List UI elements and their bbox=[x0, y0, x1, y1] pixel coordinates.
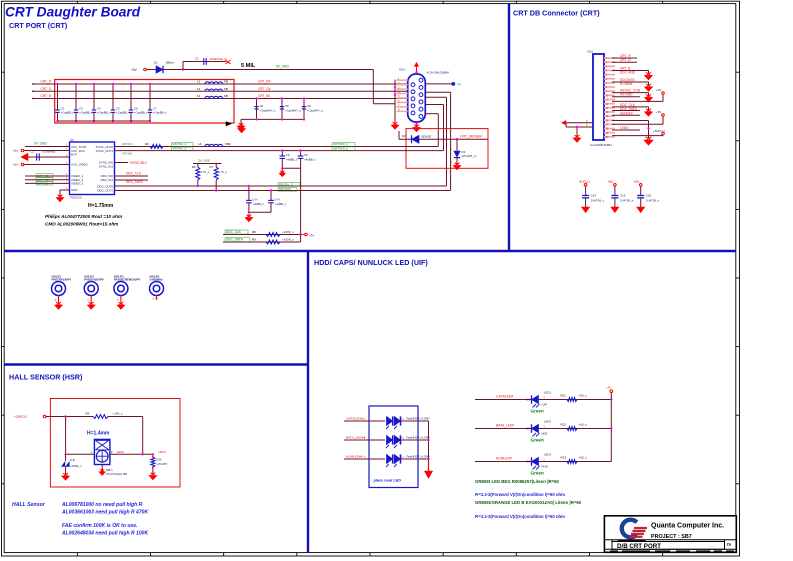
svg-text:HV-GND: HV-GND bbox=[620, 93, 633, 97]
svg-text:+5V: +5V bbox=[309, 234, 314, 238]
svg-text:PLCFT(6Hx) BB: PLCFT(6Hx) BB bbox=[106, 472, 127, 476]
svg-text:Za: Za bbox=[727, 542, 732, 547]
svg-text:+100K_x: +100K_x bbox=[282, 238, 294, 242]
svg-text:C8: C8 bbox=[260, 104, 264, 108]
svg-text:+5V: +5V bbox=[606, 386, 611, 390]
svg-text:C1: C1 bbox=[195, 57, 199, 61]
svg-text:BATA_LED#: BATA_LED# bbox=[496, 424, 514, 428]
svg-text:H=1.75mm: H=1.75mm bbox=[88, 203, 114, 209]
svg-text:LED2: LED2 bbox=[117, 450, 125, 454]
svg-text:TataHDDP_4_RID: TataHDDP_4_RID bbox=[406, 436, 429, 440]
svg-text:+5V: +5V bbox=[607, 180, 614, 184]
svg-text:1: 1 bbox=[153, 297, 155, 301]
svg-text:+4pBB_x: +4pBB_x bbox=[252, 202, 264, 206]
svg-text:4.7K_x: 4.7K_x bbox=[218, 170, 227, 174]
svg-text:+60_x: +60_x bbox=[579, 456, 588, 460]
svg-text:NUMLED#6: NUMLED#6 bbox=[346, 455, 363, 459]
svg-text:Green: Green bbox=[531, 409, 544, 414]
svg-text:2: 2 bbox=[111, 450, 113, 454]
svg-text:+3V: +3V bbox=[13, 149, 20, 153]
svg-text:DDC_DATA: DDC_DATA bbox=[126, 180, 144, 184]
svg-text:GREEN/ORANGE LED B EAG0031ZA0(: GREEN/ORANGE LED B EAG0031ZA0( Liteon )R… bbox=[475, 500, 582, 505]
svg-text:DDC_CLK: DDC_CLK bbox=[226, 230, 242, 234]
svg-text:Philips AL004772000 Rout =10 o: Philips AL004772000 Rout =10 ohm bbox=[45, 214, 122, 219]
svg-text:C9: C9 bbox=[304, 153, 308, 157]
svg-text:R4: R4 bbox=[86, 411, 90, 415]
svg-text:CRT Daughter Board: CRT Daughter Board bbox=[5, 4, 141, 19]
svg-text:CRT_SENSE#: CRT_SENSE# bbox=[460, 135, 482, 139]
svg-text:AxxxDDB.2DBH: AxxxDDB.2DBH bbox=[590, 143, 612, 147]
svg-text:HSYNC: HSYNC bbox=[122, 142, 133, 146]
svg-text:1: 1 bbox=[55, 298, 57, 302]
svg-text:R-GND#: R-GND# bbox=[620, 82, 632, 86]
svg-text:NUM: NUM bbox=[542, 464, 549, 468]
svg-text:1: 1 bbox=[451, 147, 453, 151]
svg-text:FB: FB bbox=[224, 87, 228, 91]
svg-text:+4pBB_x: +4pBB_x bbox=[275, 202, 287, 206]
svg-text:PROJECT : SB7: PROJECT : SB7 bbox=[651, 534, 692, 540]
svg-text:PAD/TH/2X/PV: PAD/TH/2X/PV bbox=[52, 278, 72, 282]
svg-text:VSYNC: VSYNC bbox=[122, 152, 133, 156]
svg-text:2: 2 bbox=[451, 160, 453, 164]
svg-text:LED3: LED3 bbox=[544, 453, 551, 457]
svg-text:R5: R5 bbox=[192, 165, 196, 169]
svg-text:VSYNC_C: VSYNC_C bbox=[173, 147, 188, 151]
svg-text:VCC_VIDEO: VCC_VIDEO bbox=[71, 163, 88, 167]
svg-text:DDC_OUT1: DDC_OUT1 bbox=[97, 188, 113, 192]
svg-text:T4: T4 bbox=[457, 82, 461, 86]
svg-text:CRT5V0_C: CRT5V0_C bbox=[333, 147, 349, 151]
svg-text:D/B CRT PORT: D/B CRT PORT bbox=[617, 543, 661, 550]
svg-text:CN1: CN1 bbox=[399, 68, 405, 72]
svg-text:U2: U2 bbox=[70, 138, 74, 142]
svg-text:TataHDDP_4_RID: TataHDDP_4_RID bbox=[406, 455, 429, 459]
svg-text:R12: R12 bbox=[561, 423, 567, 427]
svg-text:FB: FB bbox=[224, 80, 228, 84]
svg-text:CRT PORT (CRT): CRT PORT (CRT) bbox=[9, 21, 68, 30]
svg-text:DDC_IN1: DDC_IN1 bbox=[101, 178, 114, 182]
svg-text:+SYNC-B1C: +SYNC-B1C bbox=[129, 161, 148, 165]
svg-text:5N: 5N bbox=[527, 427, 531, 431]
svg-text:CRT_R: CRT_R bbox=[41, 80, 52, 84]
svg-text:R8: R8 bbox=[252, 230, 256, 234]
svg-text:+CapBB_x: +CapBB_x bbox=[79, 111, 93, 115]
svg-text:JU4700_x: JU4700_x bbox=[646, 198, 660, 202]
svg-text:+5V: +5V bbox=[131, 68, 138, 72]
svg-text:PI5A225: PI5A225 bbox=[70, 196, 82, 200]
svg-text:+PC48T: +PC48T bbox=[157, 462, 168, 466]
svg-text:+5 PCU: +5 PCU bbox=[578, 180, 590, 184]
svg-text:BByte: BByte bbox=[166, 61, 174, 65]
svg-text:H=1.4mm: H=1.4mm bbox=[87, 431, 110, 437]
svg-text:HALL SENSOR (HSR): HALL SENSOR (HSR) bbox=[9, 373, 83, 382]
svg-text:DDC-GND: DDC-GND bbox=[620, 71, 636, 75]
svg-text:R2: R2 bbox=[145, 142, 149, 146]
svg-text:+CapBB_x: +CapBB_x bbox=[61, 111, 75, 115]
svg-text:C8: C8 bbox=[285, 104, 289, 108]
svg-text:5 MIL: 5 MIL bbox=[241, 63, 256, 69]
svg-text:CRT_G: CRT_G bbox=[41, 87, 52, 91]
svg-text:CRT_G: CRT_G bbox=[620, 58, 631, 62]
svg-text:+3VPCU: +3VPCU bbox=[14, 415, 28, 419]
svg-text:CMO AL002009W01 Rout=15 ohm: CMO AL002009W01 Rout=15 ohm bbox=[45, 222, 118, 227]
svg-text:PAD/TH/2X/PV: PAD/TH/2X/PV bbox=[84, 278, 104, 282]
svg-text:+CapBB_x: +CapBB_x bbox=[134, 111, 148, 115]
svg-text:SYNC_OUT1: SYNC_OUT1 bbox=[96, 149, 114, 153]
svg-text:CAPSLED#: CAPSLED# bbox=[496, 395, 513, 399]
svg-text:S-BBMDe: S-BBMDe bbox=[150, 278, 164, 282]
svg-text:+CapBB_x: +CapBB_x bbox=[153, 111, 167, 115]
svg-text:CRT_B#: CRT_B# bbox=[258, 94, 270, 98]
svg-text:R=3.3-3(Forward V)/(On(conditi: R=3.3-3(Forward V)/(On(condition I)=60 o… bbox=[475, 514, 565, 519]
svg-text:5N: 5N bbox=[527, 460, 531, 464]
svg-text:DDC_CLK: DDC_CLK bbox=[126, 172, 142, 176]
svg-text:AL003661003 need pull high R: AL003661003 need pull high R 470K bbox=[61, 510, 148, 516]
svg-text:1: 1 bbox=[117, 298, 119, 302]
svg-text:place near LED: place near LED bbox=[374, 479, 402, 483]
svg-text:+10K_x: +10K_x bbox=[113, 411, 124, 415]
svg-text:R13: R13 bbox=[561, 456, 567, 460]
svg-text:LED1: LED1 bbox=[544, 391, 551, 395]
svg-text:+PC48T_A: +PC48T_A bbox=[462, 154, 477, 158]
svg-text:+CapBB_x: +CapBB_x bbox=[116, 111, 130, 115]
svg-text:FB: FB bbox=[224, 94, 228, 98]
svg-text:+60_x: +60_x bbox=[579, 394, 588, 398]
svg-text:C8: C8 bbox=[307, 104, 311, 108]
svg-text:FAE confirm 100K is OK to use.: FAE confirm 100K is OK to use. bbox=[62, 523, 137, 529]
svg-text:+3V: +3V bbox=[13, 163, 20, 167]
svg-text:C14: C14 bbox=[591, 194, 597, 198]
svg-text:R7: R7 bbox=[210, 165, 214, 169]
svg-text:+4pBB_x: +4pBB_x bbox=[286, 158, 298, 162]
svg-text:D-B: D-B bbox=[70, 458, 75, 462]
svg-text:Quanta Computer Inc.: Quanta Computer Inc. bbox=[651, 523, 724, 530]
svg-text:NUMLED#: NUMLED# bbox=[496, 457, 512, 461]
svg-text:VGA-SHLD/BBH: VGA-SHLD/BBH bbox=[427, 71, 449, 75]
svg-text:GREEN LED BEG R0086257(Liteon: GREEN LED BEG R0086257(Liteon )R=60 bbox=[475, 479, 560, 484]
svg-text:0.30uF/B1: 0.30uF/B1 bbox=[42, 150, 56, 154]
svg-text:+5V: +5V bbox=[656, 88, 661, 92]
svg-text:+5V: +5V bbox=[633, 180, 640, 184]
svg-text:+A05R_x: +A05R_x bbox=[70, 464, 83, 468]
svg-text:AL002648034 need pull high R: AL002648034 need pull high R 100K bbox=[61, 531, 148, 537]
svg-text:+60_x: +60_x bbox=[579, 423, 588, 427]
svg-text:LED#: LED# bbox=[620, 126, 628, 130]
svg-text:DDC5V_C: DDC5V_C bbox=[279, 182, 294, 186]
svg-text:PAD/SCREW/2X/PV: PAD/SCREW/2X/PV bbox=[114, 278, 141, 282]
svg-text:L1: L1 bbox=[197, 80, 201, 84]
svg-text:+5V: +5V bbox=[656, 110, 661, 114]
svg-text:C3: C3 bbox=[31, 150, 35, 154]
svg-text:LED2: LED2 bbox=[544, 420, 551, 424]
svg-text:DDC_DATA: DDC_DATA bbox=[226, 238, 244, 242]
svg-text:R=3.3-3(Forward V)/(On(conditi: R=3.3-3(Forward V)/(On(condition I)=60 o… bbox=[475, 492, 565, 497]
svg-text:Green: Green bbox=[531, 438, 544, 443]
svg-text:1: 1 bbox=[91, 450, 93, 454]
svg-text:CRT_G#: CRT_G# bbox=[258, 87, 271, 91]
svg-text:CRT_B1: CRT_B1 bbox=[37, 181, 49, 185]
svg-text:CRT DB Connector (CRT): CRT DB Connector (CRT) bbox=[513, 9, 600, 18]
svg-text:5V_GND: 5V_GND bbox=[34, 142, 47, 146]
svg-text:L2: L2 bbox=[197, 87, 201, 91]
svg-text:AL006781000 no need pull high: AL006781000 no need pull high R bbox=[61, 502, 143, 508]
svg-text:1: 1 bbox=[87, 298, 89, 302]
svg-text:+5VPCU: +5VPCU bbox=[653, 129, 665, 133]
svg-text:L3: L3 bbox=[197, 94, 201, 98]
svg-text:VIDEO_3: VIDEO_3 bbox=[71, 181, 84, 185]
svg-text:BYP: BYP bbox=[71, 153, 77, 157]
svg-text:+CapMHY_x: +CapMHY_x bbox=[260, 109, 277, 113]
svg-text:CRT_B: CRT_B bbox=[41, 94, 51, 98]
svg-text:5N: 5N bbox=[527, 398, 531, 402]
svg-text:+CapBB_x: +CapBB_x bbox=[97, 111, 111, 115]
svg-text:Green: Green bbox=[531, 471, 544, 476]
svg-text:HDD/ CAPS/ NUNLUCK LED (UIF): HDD/ CAPS/ NUNLUCK LED (UIF) bbox=[314, 258, 428, 267]
svg-text:HALL Sensor: HALL Sensor bbox=[12, 502, 46, 508]
svg-text:L4: L4 bbox=[198, 142, 202, 146]
svg-text:CN2: CN2 bbox=[587, 50, 593, 54]
svg-text:JU4700_x: JU4700_x bbox=[591, 198, 605, 202]
svg-text:JU4700_x: JU4700_x bbox=[620, 198, 634, 202]
svg-text:xRSENSE_R: xRSENSE_R bbox=[209, 57, 228, 61]
svg-text:+100K_x: +100K_x bbox=[282, 230, 294, 234]
svg-text:CAPSLED#2: CAPSLED#2 bbox=[346, 417, 364, 421]
svg-text:R9: R9 bbox=[252, 238, 256, 242]
svg-text:+4pBB_x: +4pBB_x bbox=[304, 158, 316, 162]
svg-text:+CapMHY_x: +CapMHY_x bbox=[307, 109, 324, 113]
svg-text:5V_GND: 5V_GND bbox=[198, 159, 211, 163]
svg-text:HDD: HDD bbox=[542, 431, 548, 435]
svg-text:FB2: FB2 bbox=[225, 142, 231, 146]
svg-text:TataHDDP_4_RID: TataHDDP_4_RID bbox=[406, 417, 429, 421]
svg-text:C16: C16 bbox=[646, 194, 652, 198]
svg-text:5V_GND: 5V_GND bbox=[276, 65, 289, 69]
svg-text:C15: C15 bbox=[620, 194, 626, 198]
svg-text:D1: D1 bbox=[154, 61, 158, 65]
svg-text:LED2: LED2 bbox=[158, 450, 166, 454]
svg-text:CAP: CAP bbox=[542, 402, 548, 406]
svg-text:R11: R11 bbox=[561, 394, 567, 398]
svg-text:DDC5V0: DDC5V0 bbox=[279, 187, 291, 191]
svg-text:SENSE: SENSE bbox=[421, 135, 431, 139]
svg-text:CRT_R#: CRT_R# bbox=[258, 80, 271, 84]
svg-text:D2: D2 bbox=[402, 134, 406, 138]
svg-text:D-B: D-B bbox=[157, 458, 162, 462]
svg-text:C9: C9 bbox=[286, 153, 290, 157]
svg-text:4.7K_x: 4.7K_x bbox=[201, 170, 210, 174]
svg-text:SYNC_IN1: SYNC_IN1 bbox=[99, 164, 114, 168]
svg-text:BATA_LED#4: BATA_LED#4 bbox=[346, 436, 365, 440]
svg-text:+CapMHY_x: +CapMHY_x bbox=[285, 109, 302, 113]
svg-text:GND: GND bbox=[71, 188, 77, 192]
